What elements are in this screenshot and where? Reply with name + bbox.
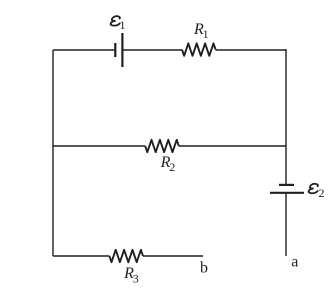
svg-text:1: 1 <box>120 18 126 32</box>
svg-text:2: 2 <box>319 186 325 200</box>
svg-text:3: 3 <box>133 271 139 285</box>
svg-text:1: 1 <box>203 27 209 41</box>
svg-text:b: b <box>200 260 208 277</box>
svg-text:a: a <box>291 253 298 270</box>
svg-text:2: 2 <box>169 160 175 174</box>
